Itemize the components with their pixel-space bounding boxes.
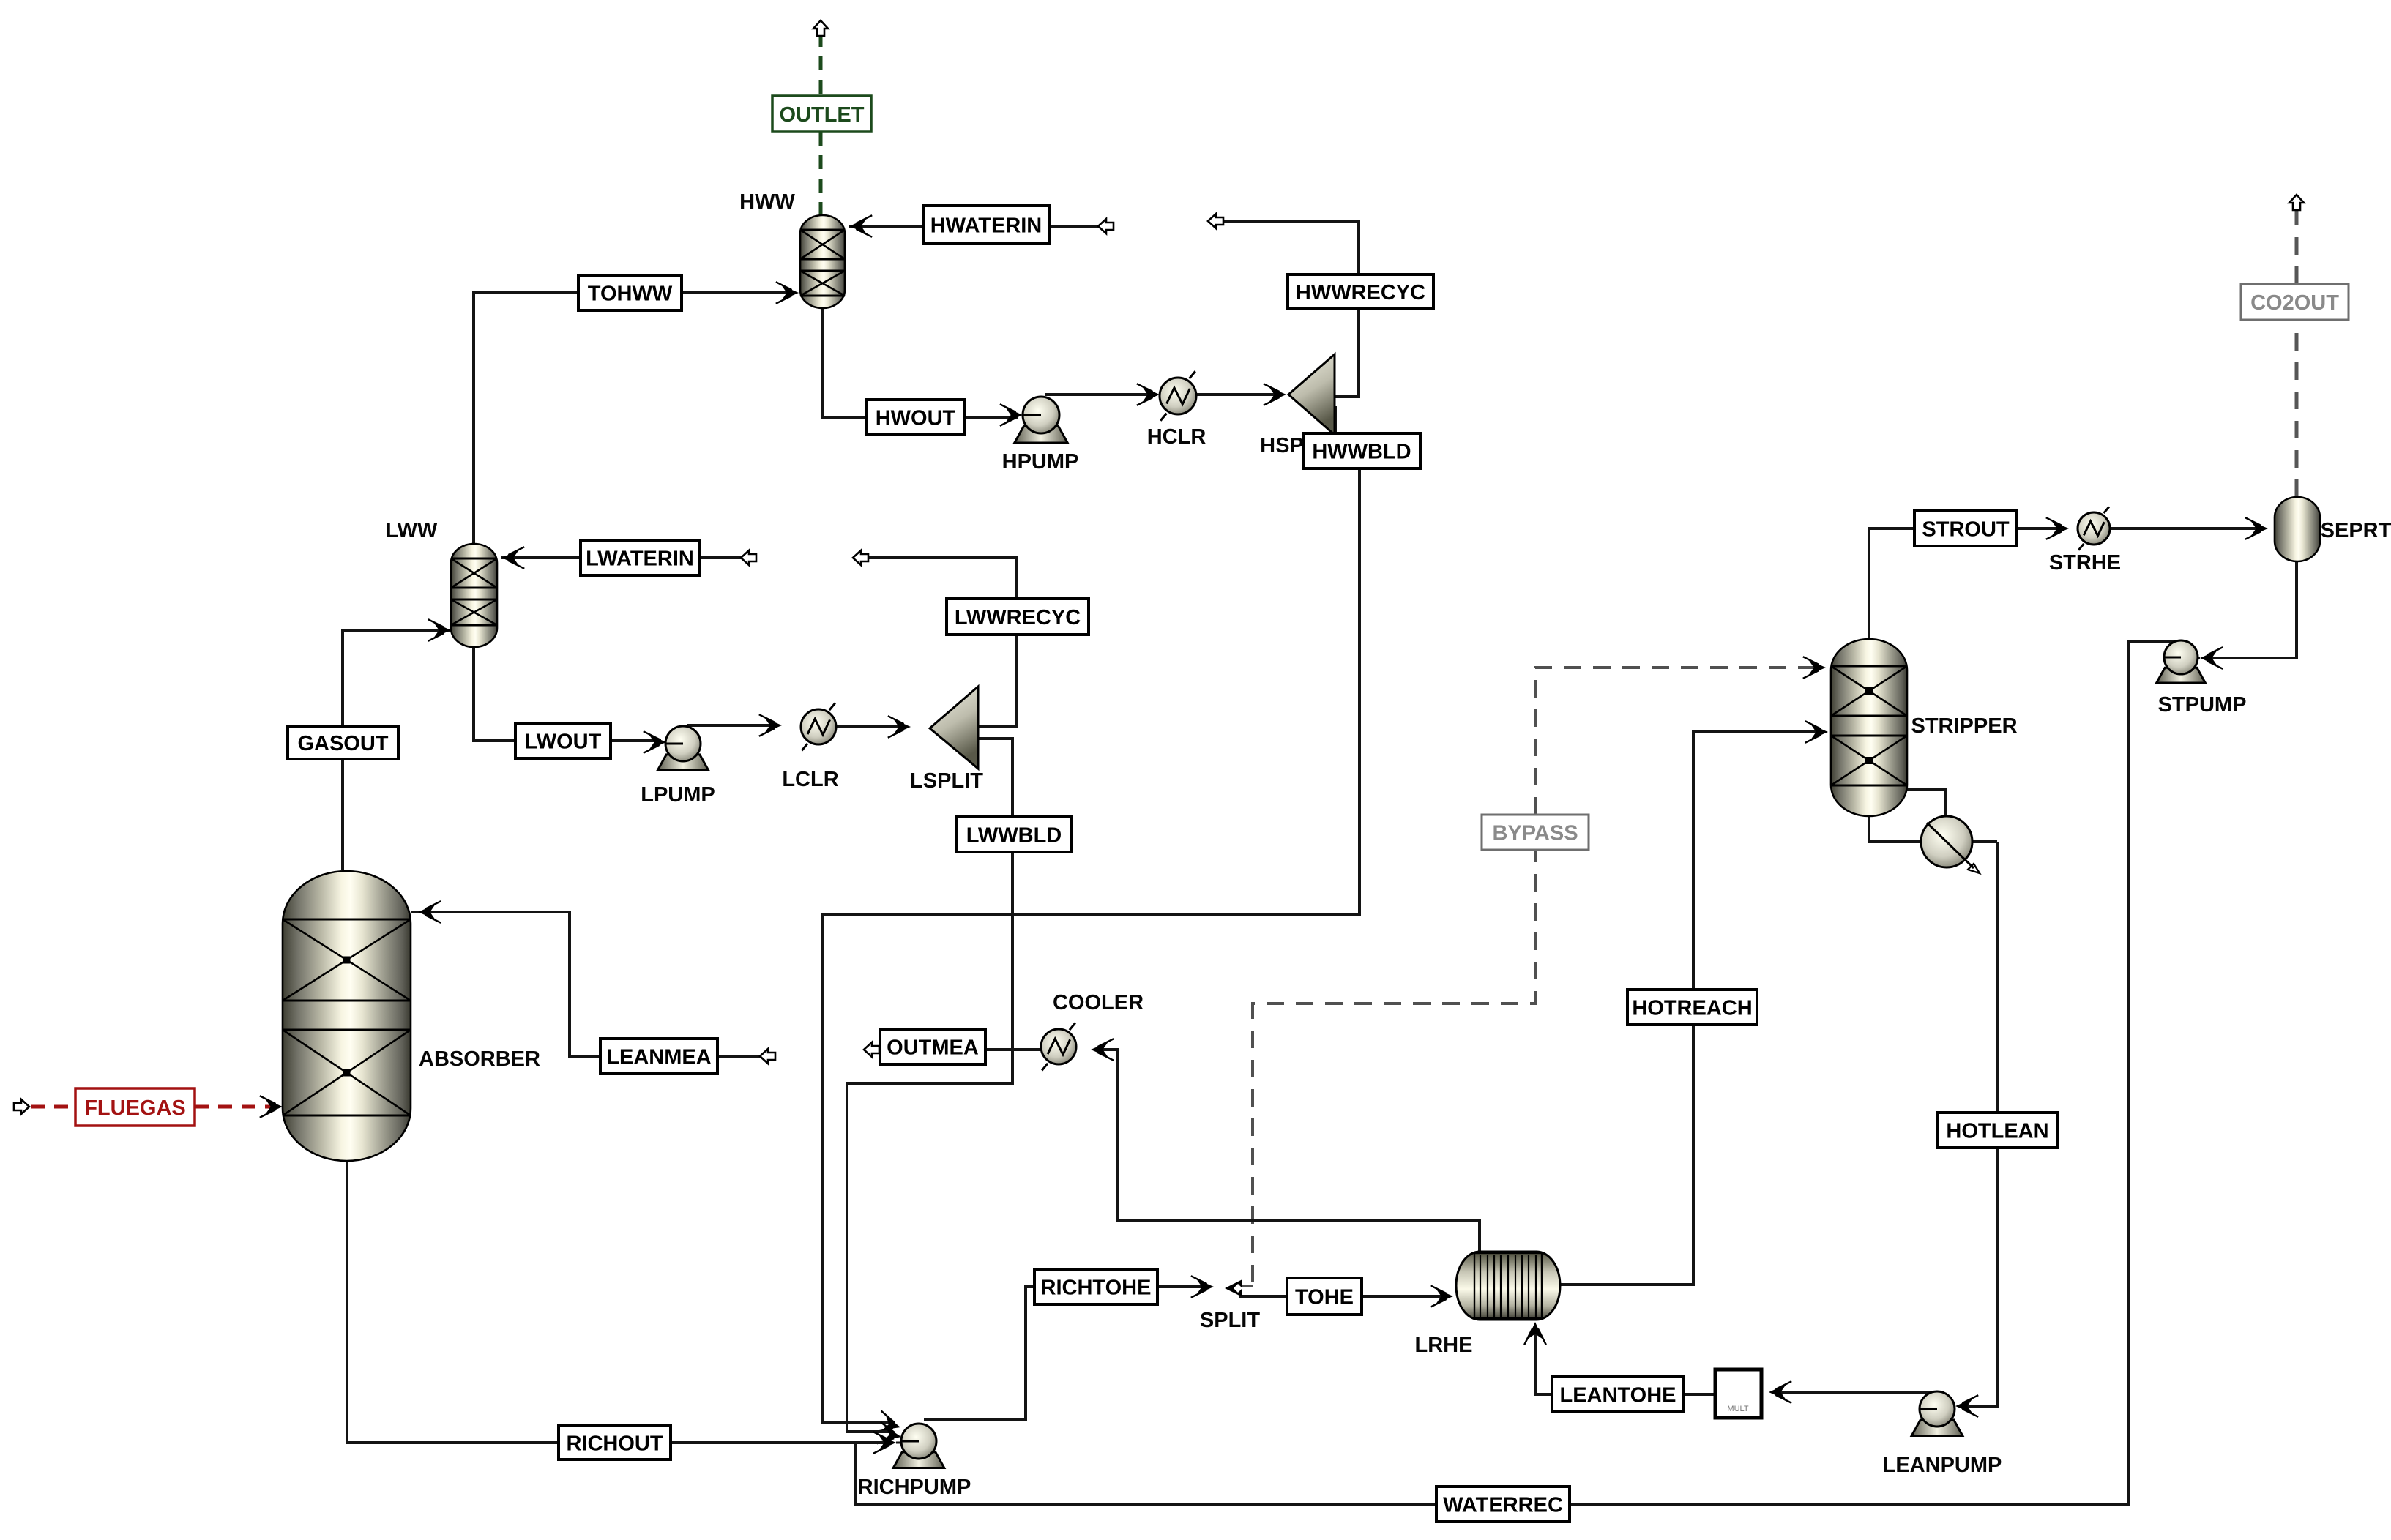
stream label LWWBLD (956, 817, 1072, 852)
svg-text:RICHOUT: RICHOUT (566, 1432, 663, 1456)
arrowhead into SEPRT (2245, 517, 2268, 539)
heater HCLR (1160, 371, 1196, 421)
pump LPUMP (657, 726, 709, 770)
svg-text:LEANTOHE: LEANTOHE (1560, 1384, 1676, 1408)
svg-text:LWOUT: LWOUT (525, 730, 602, 754)
svg-text:HWW: HWW (739, 190, 795, 214)
wire RICHOUT stub into RICHPUMP (896, 1442, 919, 1444)
svg-text:HWWBLD: HWWBLD (1312, 441, 1411, 464)
stream LEANTOHE wire to LRHE bottom (1535, 1327, 1552, 1394)
svg-text:TOHWW: TOHWW (588, 283, 673, 306)
stream TOHWW wire LWW top to HWW (474, 293, 791, 545)
svg-text:LWW: LWW (386, 519, 438, 542)
arrowhead into MULT (1769, 1381, 1791, 1403)
splitter HSP (1288, 354, 1335, 435)
stream GASOUT wire LWW inlet from absorber (343, 630, 451, 726)
stream label LWWRECYC (947, 599, 1089, 635)
svg-text:TOHE: TOHE (1295, 1286, 1354, 1309)
arrowhead into SPLIT (1191, 1276, 1214, 1298)
terminal open arrow LEANMEA (left) (760, 1049, 775, 1064)
stream LWATERIN wire into LWW (501, 556, 581, 559)
arrowhead FLUEGAS into ABSORBER (260, 1096, 283, 1118)
stream label HWATERIN (923, 206, 1049, 244)
svg-text:LCLR: LCLR (782, 768, 838, 791)
svg-text:OUTLET: OUTLET (780, 103, 865, 127)
stream LWWRECYC wire terminal to label (853, 558, 1017, 599)
stream BYPASS stub from SPLIT (1240, 1285, 1253, 1287)
svg-text:MULT: MULT (1727, 1405, 1748, 1413)
stream label RICHOUT (559, 1426, 671, 1459)
stream label TOHE (1287, 1278, 1362, 1315)
arrowhead GASOUT into LWW (428, 619, 451, 641)
arrowhead HWATERIN into HWW (849, 215, 872, 237)
stream label WATERREC (1436, 1487, 1570, 1522)
svg-text:CO2OUT: CO2OUT (2250, 291, 2339, 315)
svg-text:HOTLEAN: HOTLEAN (1946, 1120, 2048, 1143)
stream HWATERIN wire to terminal (1049, 225, 1098, 228)
svg-text:STPUMP: STPUMP (2158, 693, 2247, 717)
splitter SPLIT (small) (1225, 1279, 1242, 1297)
terminal open arrow OUTMEA (left) (864, 1042, 879, 1057)
terminal open arrow CO2OUT (up) (2289, 195, 2304, 210)
stream label TOHWW (578, 275, 682, 310)
stream label LWOUT (515, 723, 611, 758)
column HWW water wash (800, 215, 845, 308)
stream LWWBLD wire down to RICHPUMP (847, 852, 1012, 1432)
stream HWATERIN wire into HWW (849, 225, 923, 228)
arrowhead into STPUMP (2200, 647, 2223, 669)
stream BYPASS dashed wire up and right (1253, 850, 1535, 1282)
arrowhead LEANTOHE into LRHE (1524, 1322, 1546, 1345)
pump STPUMP (2157, 640, 2206, 683)
svg-text:HSP: HSP (1260, 434, 1304, 457)
stream label LWATERIN (581, 540, 699, 575)
stream HWWBLD wire down to RICHPUMP (822, 468, 1359, 1423)
stream RICHOUT wire to RICHPUMP (671, 1441, 887, 1444)
svg-text:LWWBLD: LWWBLD (966, 824, 1062, 848)
arrowhead LWWBLD into RICHPUMP (877, 1422, 903, 1448)
stream GASOUT wire to ABSORBER top (341, 759, 344, 870)
svg-text:LPUMP: LPUMP (641, 783, 715, 807)
stream label HWOUT (867, 400, 964, 435)
stream OUTLET dashed segment above label (819, 33, 823, 96)
column LWW water wash (451, 544, 497, 647)
svg-text:LWWRECYC: LWWRECYC (955, 606, 1081, 629)
stream WATERREC wire STPUMP down and left (1570, 642, 2176, 1504)
splitter LSPLIT (930, 687, 978, 769)
arrowhead into COOLER (1091, 1039, 1114, 1061)
svg-text:LEANMEA: LEANMEA (606, 1046, 711, 1069)
svg-text:OUTMEA: OUTMEA (887, 1036, 979, 1060)
cooler COOLER (1041, 1023, 1076, 1071)
stream label BYPASS (1482, 815, 1589, 850)
svg-text:SEPRT: SEPRT (2321, 519, 2391, 542)
svg-text:COOLER: COOLER (1053, 991, 1144, 1014)
heater STRHE (2078, 507, 2110, 550)
arrowhead into LCLR (759, 714, 782, 736)
svg-text:GASOUT: GASOUT (297, 732, 388, 755)
stream TOHE wire to LRHE (1362, 1295, 1444, 1298)
stream label HWWBLD (1303, 433, 1420, 468)
pump LEANPUMP (1911, 1391, 1963, 1435)
stream STROUT wire to STRHE (2017, 527, 2062, 530)
arrowhead BYPASS into STRIPPER (1803, 657, 1826, 679)
svg-text:LEANPUMP: LEANPUMP (1883, 1454, 2002, 1477)
stream OUTMEA wire COOLER to label (985, 1048, 1041, 1051)
wire LPUMP outlet to LCLR (687, 724, 776, 727)
stream FLUEGAS dashed wire left of label (31, 1105, 75, 1109)
stream HWWRECYC wire HSP to terminal (1208, 221, 1359, 397)
stream FLUEGAS dashed wire into ABSORBER (195, 1105, 272, 1109)
stream OUTMEA wire to terminal (864, 1048, 880, 1051)
arrowhead into HSP (1264, 384, 1286, 405)
column STRIPPER (1831, 639, 1907, 816)
heater LCLR (801, 703, 836, 751)
arrowhead LEANMEA into ABSORBER (418, 901, 441, 923)
stream LEANMEA wire into ABSORBER (411, 912, 600, 1056)
reboiler of STRIPPER (1921, 816, 1980, 873)
svg-text:SPLIT: SPLIT (1200, 1309, 1260, 1332)
svg-text:RICHPUMP: RICHPUMP (858, 1476, 971, 1499)
stream HOTLEAN wire down to LEANPUMP (1961, 842, 1997, 1406)
arrowhead LWATERIN into LWW (501, 547, 524, 569)
stream label LEANTOHE (1552, 1377, 1684, 1412)
wire stub into LEANPUMP (1937, 1405, 1955, 1408)
svg-text:LWATERIN: LWATERIN (586, 547, 694, 571)
stream LWOUT wire to LPUMP (611, 739, 661, 742)
stream label HOTREACH (1627, 990, 1757, 1025)
svg-text:HCLR: HCLR (1147, 425, 1206, 449)
stream LWWRECYC wire to LSPLIT (978, 635, 1017, 727)
column ABSORBER (283, 871, 411, 1161)
stream RICHOUT wire from ABSORBER bottom (347, 1161, 559, 1443)
stream LWOUT wire from LWW bottom (474, 647, 515, 741)
stream LEANMEA wire to terminal (717, 1055, 760, 1058)
stream LWWBLD wire from LSPLIT (978, 739, 1012, 817)
stream LEANTOHE wire MULT to label (1684, 1393, 1715, 1396)
stream HWOUT wire from HWW bottom (822, 308, 867, 417)
stream label HOTLEAN (1938, 1113, 2057, 1148)
stream BYPASS dashed wire into STRIPPER (1535, 668, 1817, 815)
pump RICHPUMP (893, 1424, 944, 1468)
wire RICHPUMP outlet up to RICHTOHE (924, 1287, 1034, 1420)
wire reboiler outlet (1973, 840, 1997, 843)
svg-text:HWOUT: HWOUT (876, 407, 956, 430)
arrowhead into HCLR (1137, 384, 1160, 405)
stream WATERREC wire to RICHPUMP (856, 1443, 1436, 1504)
svg-text:STRIPPER: STRIPPER (1911, 714, 2017, 738)
arrowhead LWOUT into LPUMP (644, 731, 666, 753)
stream CO2OUT dashed wire from SEPRT top (2295, 320, 2299, 497)
stream OUTLET dashed segment to HWW top (819, 132, 823, 214)
stream label CO2OUT (2241, 284, 2349, 320)
wire HPUMP outlet to HCLR (1045, 393, 1155, 396)
wire SEPRT bottom to STPUMP (2206, 561, 2297, 658)
wire STRIPPER side to reboiler top (1907, 790, 1946, 815)
svg-text:STRHE: STRHE (2049, 551, 2121, 575)
wire LWOUT stub into LPUMP (666, 741, 683, 744)
arrowhead TOHWW into HWW (776, 282, 799, 304)
svg-text:BYPASS: BYPASS (1492, 822, 1578, 845)
stream label FLUEGAS (75, 1088, 195, 1126)
svg-text:LRHE: LRHE (1415, 1334, 1473, 1357)
wire LEANPUMP outlet to MULT (1775, 1391, 1933, 1394)
svg-text:HWWRECYC: HWWRECYC (1296, 281, 1425, 304)
arrowhead RICHOUT into RICHPUMP (873, 1432, 896, 1454)
wire STRHE outlet to SEPRT (2110, 527, 2259, 530)
stream label OUTMEA (880, 1029, 985, 1064)
stream CO2OUT dashed wire above label (2295, 207, 2299, 284)
svg-text:HWATERIN: HWATERIN (930, 214, 1042, 238)
stream label STROUT (1914, 511, 2017, 546)
terminal open arrow HWATERIN (left) (1098, 219, 1114, 233)
svg-text:HPUMP: HPUMP (1002, 450, 1079, 474)
pump HPUMP (1015, 397, 1068, 443)
arrowhead into STRHE (2046, 517, 2069, 539)
svg-text:LSPLIT: LSPLIT (910, 769, 983, 793)
arrowhead TOHE into LRHE (1431, 1285, 1453, 1307)
wire HCLR outlet to HSP (1196, 393, 1280, 396)
terminal open arrow FLUEGAS (right) (14, 1099, 29, 1114)
stream label GASOUT (288, 726, 398, 759)
heat exchanger LRHE (1456, 1252, 1560, 1320)
stream RICHTOHE wire to SPLIT (1157, 1285, 1206, 1288)
wire HWOUT stub into HPUMP (1023, 414, 1041, 416)
wire LCLR outlet to LSPLIT (836, 725, 905, 728)
stream label OUTLET (772, 96, 871, 132)
terminal open arrow HWWRECYC (left) (1208, 214, 1223, 228)
arrowhead into LSPLIT (888, 716, 911, 738)
terminal open arrow OUTLET (up) (813, 20, 828, 36)
stream LWATERIN wire to terminal (699, 556, 741, 559)
arrowhead HOTREACH into STRIPPER (1805, 721, 1828, 743)
arrowhead HWOUT into HPUMP (1000, 404, 1023, 426)
wire stub into STPUMP (2181, 657, 2200, 659)
svg-text:STROUT: STROUT (1922, 518, 2010, 542)
svg-text:RICHTOHE: RICHTOHE (1041, 1277, 1152, 1300)
multiplier block MULT (1715, 1369, 1761, 1418)
stream STROUT wire from STRIPPER top (1869, 528, 1914, 639)
stream TOHE wire from SPLIT (1239, 1295, 1287, 1298)
stream label RICHTOHE (1034, 1269, 1157, 1304)
stream HOTREACH wire LRHE to label (1560, 1025, 1693, 1285)
stream HWOUT wire to HPUMP (964, 416, 1018, 419)
svg-text:HOTREACH: HOTREACH (1632, 997, 1752, 1020)
wire LRHE lean outlet to COOLER (1096, 1050, 1480, 1252)
terminal open arrow LWWRECYC (left) (853, 550, 868, 565)
svg-text:FLUEGAS: FLUEGAS (84, 1096, 186, 1120)
svg-text:ABSORBER: ABSORBER (419, 1047, 540, 1071)
arrowhead HOTLEAN into LEANPUMP (1955, 1395, 1978, 1417)
stream HWWBLD wire from HSP down (1335, 408, 1335, 433)
arrowhead HWWBLD into RICHPUMP (876, 1411, 903, 1438)
stream label LEANMEA (600, 1039, 717, 1074)
stream label HWWRECYC (1288, 274, 1433, 309)
stream HOTREACH wire into STRIPPER (1693, 732, 1822, 990)
terminal open arrow LWATERIN (left) (741, 550, 756, 565)
svg-text:WATERREC: WATERREC (1443, 1494, 1563, 1517)
flash drum SEPRT (2275, 497, 2320, 561)
wire STRIPPER bottom to reboiler (1869, 816, 1920, 842)
